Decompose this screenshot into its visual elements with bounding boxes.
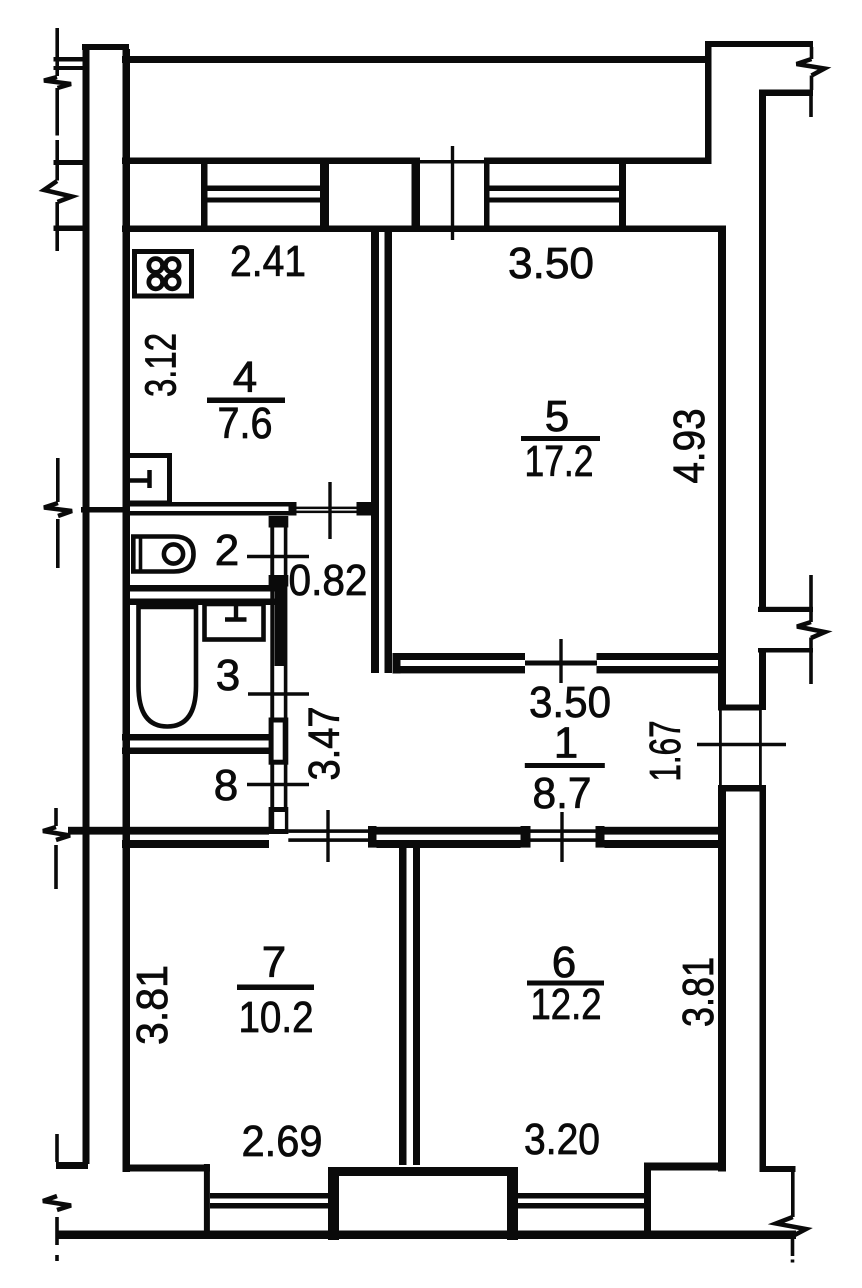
svg-text:8: 8: [214, 761, 238, 810]
svg-text:1.67: 1.67: [641, 721, 690, 782]
svg-text:3.50: 3.50: [529, 678, 611, 727]
svg-text:7: 7: [262, 938, 286, 987]
svg-text:3.20: 3.20: [524, 1115, 600, 1164]
svg-text:2: 2: [215, 526, 239, 575]
svg-text:4.93: 4.93: [665, 409, 714, 484]
svg-text:3.12: 3.12: [137, 333, 186, 397]
svg-text:17.2: 17.2: [525, 437, 594, 486]
svg-text:3.81: 3.81: [128, 965, 177, 1045]
svg-text:0.82: 0.82: [289, 556, 368, 605]
svg-text:12.2: 12.2: [531, 980, 602, 1029]
svg-text:2.69: 2.69: [242, 1117, 323, 1166]
svg-text:3.47: 3.47: [300, 707, 349, 781]
svg-text:3.50: 3.50: [508, 239, 594, 288]
svg-text:4: 4: [233, 353, 257, 402]
svg-text:2.41: 2.41: [230, 237, 306, 286]
svg-text:8.7: 8.7: [533, 769, 592, 818]
svg-text:7.6: 7.6: [218, 399, 273, 448]
svg-text:3.81: 3.81: [674, 957, 723, 1027]
svg-text:3: 3: [216, 651, 240, 700]
svg-text:5: 5: [545, 392, 569, 441]
svg-text:10.2: 10.2: [239, 993, 314, 1042]
